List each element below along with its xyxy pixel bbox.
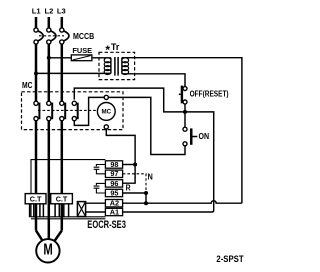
svg-text:C.T: C.T <box>56 195 68 204</box>
svg-text:EOCR-SE3: EOCR-SE3 <box>87 219 126 231</box>
svg-text:A1: A1 <box>110 207 119 216</box>
svg-text:C.T: C.T <box>30 195 42 204</box>
svg-text:2-SPST: 2-SPST <box>216 254 243 265</box>
svg-text:OFF(RESET): OFF(RESET) <box>190 90 229 99</box>
svg-text:M: M <box>43 242 52 259</box>
svg-text:MCCB: MCCB <box>73 31 94 41</box>
svg-text:ON: ON <box>199 132 210 141</box>
svg-text:L2: L2 <box>44 6 53 15</box>
svg-text:L3: L3 <box>57 6 66 15</box>
svg-text:97: 97 <box>110 169 118 178</box>
svg-text:L1: L1 <box>32 6 42 15</box>
svg-text:N: N <box>148 173 154 182</box>
svg-text:95: 95 <box>110 188 118 197</box>
svg-text:Tr: Tr <box>111 42 120 52</box>
svg-text:A2: A2 <box>110 199 119 208</box>
svg-text:MC: MC <box>22 81 33 90</box>
svg-text:R: R <box>126 183 131 192</box>
svg-text:96: 96 <box>110 179 118 188</box>
svg-text:MC: MC <box>102 108 112 115</box>
svg-text:*: * <box>105 43 110 57</box>
svg-text:FUSE: FUSE <box>72 46 92 55</box>
svg-text:98: 98 <box>110 160 118 169</box>
